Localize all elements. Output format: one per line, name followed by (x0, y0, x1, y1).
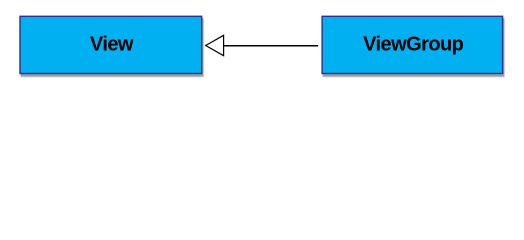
svg-text:ViewGroup: ViewGroup (363, 34, 464, 56)
svg-text:View: View (90, 34, 134, 56)
